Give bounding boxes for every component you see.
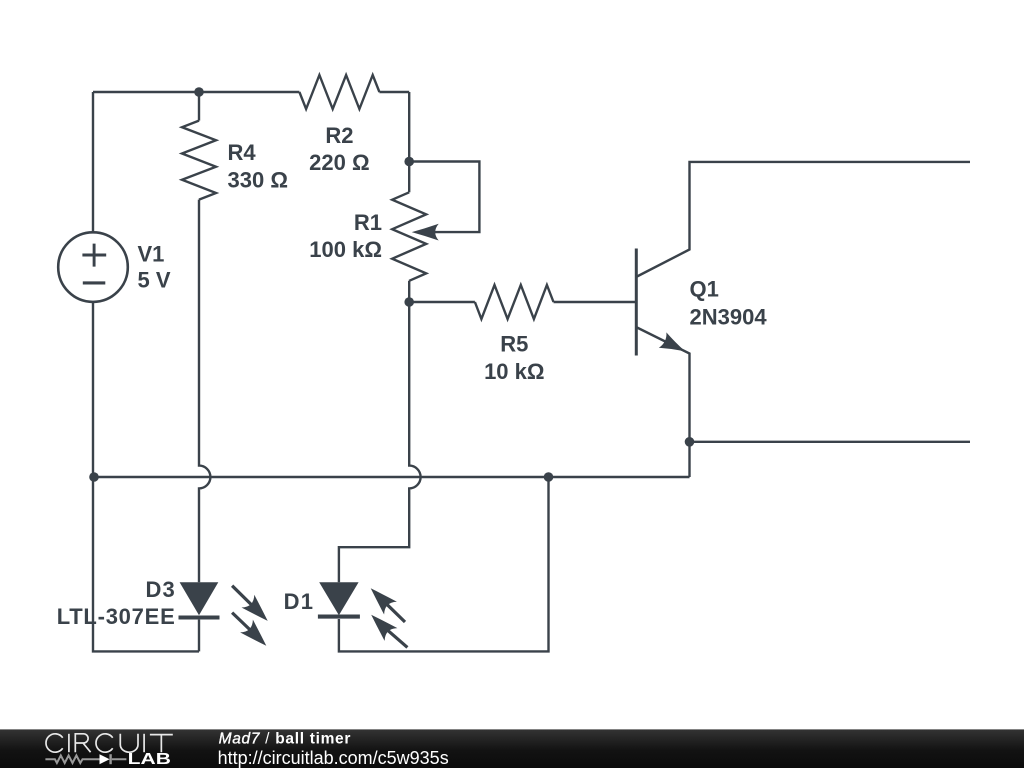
svg-text:V1: V1 [138, 241, 165, 266]
svg-text:D1: D1 [284, 589, 315, 614]
svg-text:5 V: 5 V [138, 268, 171, 293]
svg-text:R2: R2 [325, 123, 353, 148]
svg-text:100 kΩ: 100 kΩ [309, 237, 382, 262]
svg-text:Mad7 / ball timer: Mad7 / ball timer [219, 731, 352, 748]
svg-text:330 Ω: 330 Ω [228, 167, 288, 192]
svg-text:D3: D3 [145, 577, 176, 602]
svg-text:Q1: Q1 [690, 276, 719, 301]
svg-text:LAB: LAB [128, 751, 171, 768]
svg-text:R1: R1 [354, 210, 382, 235]
svg-text:http://circuitlab.com/c5w935s: http://circuitlab.com/c5w935s [218, 748, 449, 768]
svg-text:LTL-307EE: LTL-307EE [57, 604, 176, 629]
svg-text:10 kΩ: 10 kΩ [484, 359, 544, 384]
svg-text:2N3904: 2N3904 [690, 305, 768, 330]
svg-text:R5: R5 [500, 332, 528, 357]
svg-text:R4: R4 [228, 140, 257, 165]
svg-text:220 Ω: 220 Ω [309, 150, 369, 175]
